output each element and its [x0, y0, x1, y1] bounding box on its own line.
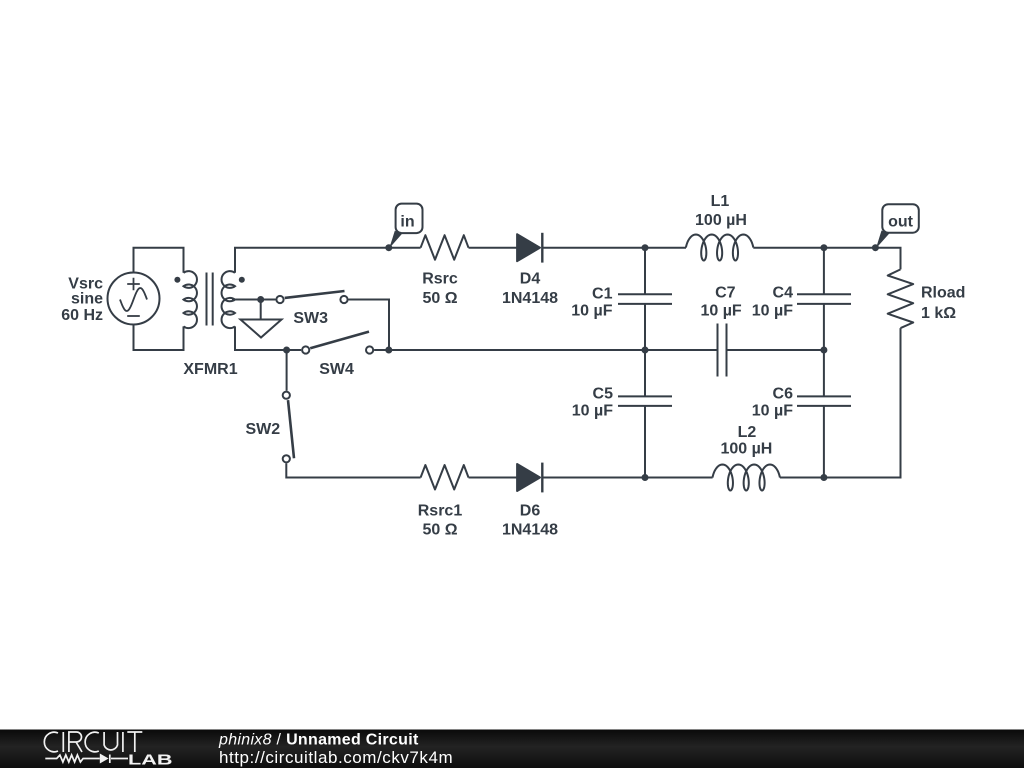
junction out [872, 244, 879, 251]
inductor L1 [686, 235, 753, 261]
CircuitLab logo squiggle [45, 755, 128, 764]
svg-text:LAB: LAB [128, 752, 173, 768]
switch SW2 [283, 392, 294, 463]
resistor Rsrc [421, 235, 469, 260]
inductor L2 [713, 465, 780, 491]
svg-text:C4: C4 [773, 285, 794, 302]
label C5 10 uF [572, 386, 613, 420]
svg-text:100 µH: 100 µH [695, 212, 747, 229]
svg-text:60 Hz: 60 Hz [61, 307, 103, 324]
svg-text:http://circuitlab.com/ckv7k4m: http://circuitlab.com/ckv7k4m [219, 748, 453, 767]
resistor Rload [888, 269, 914, 328]
switch SW3 [276, 291, 347, 303]
svg-text:D6: D6 [520, 503, 541, 520]
svg-text:L2: L2 [738, 424, 757, 441]
label L1 100 uH [695, 193, 747, 229]
wire secondary center tap [232, 299, 276, 301]
CircuitLab logo diode [100, 754, 109, 764]
wire Vsrc top to primary [134, 248, 184, 273]
wire Vsrc bottom to primary [134, 325, 184, 351]
svg-text:C7: C7 [715, 285, 736, 302]
svg-text:10 µF: 10 µF [572, 403, 613, 420]
svg-text:50 Ω: 50 Ω [422, 290, 457, 307]
capacitor C4 [797, 248, 851, 350]
svg-text:10 µF: 10 µF [700, 302, 741, 319]
wire Rload bottom [824, 328, 901, 477]
junction C6 bottom [820, 474, 827, 481]
wire SW2 bottom to bottom rail [286, 463, 420, 477]
label C4 10 uF [752, 285, 793, 320]
junction C4 bottom [820, 347, 827, 354]
CircuitLab logo CIRCUIT [44, 732, 142, 752]
wire secondary top lead [235, 248, 421, 273]
junction C5 bottom [642, 474, 649, 481]
svg-text:C6: C6 [773, 386, 794, 403]
wire secondary bottom lead [235, 326, 301, 350]
label Rload 1 kohm [921, 285, 965, 323]
svg-text:in: in [400, 213, 414, 230]
diode D6 [517, 463, 542, 493]
wire SW3 to middle rail [349, 300, 390, 351]
svg-text:50 Ω: 50 Ω [422, 521, 457, 538]
transformer XFMR1 [174, 271, 244, 328]
svg-text:1N4148: 1N4148 [502, 290, 558, 307]
node flag in [389, 204, 422, 249]
label C6 10 uF [752, 386, 793, 420]
svg-text:L1: L1 [711, 193, 730, 210]
capacitor C6 [797, 350, 851, 478]
junction in [385, 244, 392, 251]
label L2 100 uH [720, 424, 772, 458]
svg-text:phinix8 / Unnamed Circuit: phinix8 / Unnamed Circuit [218, 732, 419, 749]
svg-text:SW3: SW3 [293, 310, 328, 327]
junction C1 top [642, 244, 649, 251]
wire ground stem [260, 300, 262, 320]
svg-text:sine: sine [71, 291, 103, 308]
svg-text:SW4: SW4 [319, 361, 354, 378]
label C7 10 uF [700, 285, 741, 320]
resistor Rsrc1 [421, 465, 469, 490]
voltage source Vsrc [108, 273, 160, 325]
svg-text:D4: D4 [520, 270, 541, 287]
svg-text:Rsrc1: Rsrc1 [418, 503, 463, 520]
svg-text:C1: C1 [592, 286, 613, 303]
node flag out [876, 204, 919, 248]
svg-text:100 µH: 100 µH [720, 441, 772, 458]
svg-text:Rload: Rload [921, 285, 965, 302]
capacitor C5 [618, 350, 672, 478]
label Vsrc sine 60 Hz [61, 275, 103, 324]
capacitor C7 [718, 324, 727, 377]
svg-text:out: out [888, 213, 914, 230]
junction center tap [257, 296, 264, 303]
junction C1 bottom [642, 347, 649, 354]
wire D4 to L1 [542, 247, 686, 249]
svg-text:10 µF: 10 µF [752, 403, 793, 420]
label C1 10 uF [571, 286, 612, 320]
label D6 1N4148 [502, 503, 558, 539]
junction SW2 branch [283, 347, 290, 354]
label Rsrc 50 ohm [422, 270, 458, 307]
svg-text:1 kΩ: 1 kΩ [921, 305, 956, 322]
svg-text:C5: C5 [593, 386, 614, 403]
wire L2 to C6 bottom [780, 477, 824, 479]
diode D4 [517, 233, 542, 263]
svg-text:10 µF: 10 µF [571, 302, 612, 319]
wire D6 to L2 [542, 477, 712, 479]
svg-text:1N4148: 1N4148 [502, 521, 558, 538]
wire SW4 right to junction [374, 349, 716, 351]
junction C4 top [820, 244, 827, 251]
label D4 1N4148 [502, 270, 558, 307]
wire L1 to out [753, 248, 900, 270]
junction SW3 branch [385, 347, 392, 354]
svg-text:Rsrc: Rsrc [422, 270, 458, 287]
switch SW4 [302, 332, 373, 354]
wire Rsrc1 to D6 [469, 477, 518, 479]
wire middle rail to SW2 [286, 350, 288, 391]
label Rsrc1 50 ohm [418, 503, 463, 539]
svg-text:10 µF: 10 µF [752, 302, 793, 319]
wire C7 right to C4 [728, 349, 824, 351]
svg-text:SW2: SW2 [245, 421, 280, 438]
wire Rsrc to D4 [469, 247, 518, 249]
ground [241, 320, 282, 338]
svg-text:XFMR1: XFMR1 [183, 361, 237, 378]
capacitor C1 [618, 248, 672, 350]
